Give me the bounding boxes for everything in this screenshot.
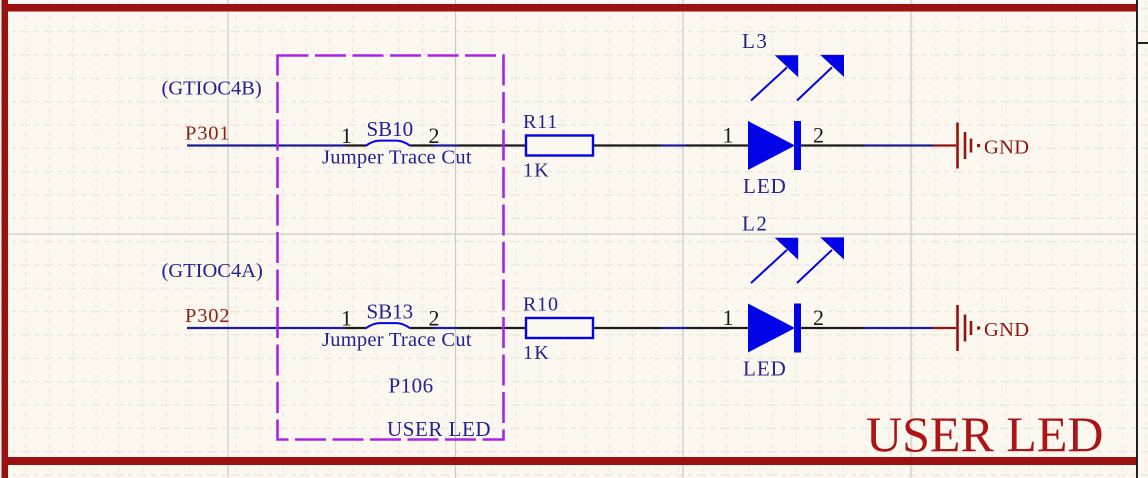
- LED L2 arrow 2: [797, 237, 844, 283]
- svg-text:LED: LED: [743, 174, 787, 198]
- wire LED L3 pin2 (black): [801, 144, 864, 146]
- jumper SB10 pin 1 number: [341, 123, 352, 148]
- svg-text:1: 1: [341, 123, 352, 148]
- component group comment USER LED: [387, 417, 491, 441]
- port P301: [185, 123, 230, 145]
- LED L3 pin 2 number: [813, 123, 824, 148]
- svg-text:1K: 1K: [523, 342, 550, 364]
- adjacent sheet edge tick: [1137, 42, 1148, 44]
- svg-text:P106: P106: [389, 374, 434, 398]
- jumper SB10 arc body: [366, 141, 411, 146]
- svg-text:P302: P302: [185, 305, 230, 327]
- LED L3 triangle anode: [748, 121, 795, 170]
- svg-text:SB10: SB10: [367, 117, 414, 141]
- LED L2 pin 1 number: [723, 305, 734, 330]
- port P302: [185, 305, 230, 327]
- LED L3 arrow 1: [751, 55, 798, 100]
- ground GND row2 label: [984, 319, 1029, 341]
- jumper SB13 pin 2 lead: [411, 327, 434, 329]
- wire SB10 pin2 to R11 (blue): [434, 144, 459, 146]
- adjacent sheet edge vertical black line: [1136, 0, 1138, 478]
- LED L2 arrow 1: [751, 238, 798, 283]
- wire P302 to SB13 pin1 (blue): [187, 327, 345, 329]
- LED L3 type label: [743, 174, 787, 198]
- svg-text:(GTIOC4B): (GTIOC4B): [162, 78, 262, 100]
- jumper SB10 pin 1 lead: [345, 144, 366, 146]
- resistor R10 body: [526, 318, 593, 338]
- svg-text:2: 2: [813, 123, 824, 148]
- sheet major grid line vertical 4: [910, 0, 912, 478]
- svg-text:GND: GND: [984, 319, 1029, 341]
- sheet major grid line horizontal: [8, 233, 1136, 235]
- svg-text:2: 2: [429, 306, 440, 331]
- jumper SB13 pin 2 number: [429, 306, 440, 331]
- svg-text:2: 2: [813, 305, 824, 330]
- svg-text:R10: R10: [523, 294, 559, 316]
- resistor R11 body: [526, 136, 593, 156]
- svg-text:1: 1: [723, 123, 734, 148]
- svg-text:P301: P301: [185, 123, 230, 145]
- wire net segment row2 (blue): [661, 327, 686, 329]
- jumper SB10 comment Jumper Trace Cut: [322, 147, 472, 169]
- sheet major grid line vertical 2: [455, 0, 457, 478]
- svg-text:LED: LED: [743, 357, 787, 381]
- LED L3 arrow 2: [797, 55, 844, 101]
- svg-text:2: 2: [429, 123, 440, 148]
- svg-text:Jumper Trace Cut: Jumper Trace Cut: [322, 329, 472, 351]
- LED L2 triangle anode: [748, 304, 795, 353]
- svg-text:L3: L3: [742, 29, 768, 53]
- resistor R11 value 1K: [523, 160, 550, 182]
- jumper SB13 arc body: [366, 323, 411, 328]
- sheet border bottom red bar: [2, 457, 1137, 465]
- sheet major grid line vertical 1: [227, 0, 229, 478]
- wire SB13 pin2 to R10 (blue): [434, 327, 459, 329]
- LED L2 cathode bar: [794, 304, 801, 353]
- net label (GTIOC4A): [162, 260, 263, 282]
- ground GND row1: [933, 123, 980, 169]
- sheet border top red bar: [2, 4, 1137, 12]
- LED L2 pin 2 number: [813, 305, 824, 330]
- jumper SB10 pin 2 lead: [411, 144, 434, 146]
- jumper SB10 pin 2 number: [429, 123, 440, 148]
- svg-text:1: 1: [723, 305, 734, 330]
- wire net segment to LED L2 pin1 (black): [686, 327, 748, 329]
- wire P301 to SB10 pin1 (blue): [187, 144, 345, 146]
- LED L3 designator: [742, 29, 768, 53]
- jumper SB13 designator: [367, 300, 414, 324]
- svg-text:Jumper Trace Cut: Jumper Trace Cut: [322, 147, 472, 169]
- component group dashed box P106: [278, 56, 504, 440]
- resistor R11 left lead: [458, 144, 526, 146]
- wire net segment to LED L3 pin1 (black): [686, 144, 748, 146]
- ground GND row2: [933, 305, 980, 351]
- jumper SB13 comment Jumper Trace Cut: [322, 329, 472, 351]
- resistor R10 value 1K: [523, 342, 550, 364]
- title text USER LED: [866, 406, 1104, 462]
- wire R10 to net segment (black): [594, 327, 661, 329]
- jumper SB10 designator: [367, 117, 414, 141]
- svg-text:GND: GND: [984, 137, 1029, 159]
- ground GND row1 label: [984, 137, 1029, 159]
- wire to GND row2 (blue): [864, 327, 933, 329]
- wire to GND row1 (blue): [864, 144, 933, 146]
- sheet major grid line vertical 3: [682, 0, 684, 478]
- net label (GTIOC4B): [162, 78, 262, 100]
- jumper SB13 pin 1 lead: [345, 327, 366, 329]
- svg-text:L2: L2: [742, 212, 768, 236]
- LED L2 designator: [742, 212, 768, 236]
- svg-text:USER LED: USER LED: [387, 417, 491, 441]
- svg-text:1: 1: [341, 306, 352, 331]
- svg-text:1K: 1K: [523, 160, 550, 182]
- wire net segment (blue): [661, 144, 686, 146]
- LED L3 cathode bar: [794, 121, 801, 170]
- jumper SB13 pin 1 number: [341, 306, 352, 331]
- sheet border left red bar: [2, 0, 9, 478]
- LED L3 pin 1 number: [723, 123, 734, 148]
- component group designator P106: [389, 374, 434, 398]
- resistor R10 left lead: [458, 327, 526, 329]
- LED L2 type label: [743, 357, 787, 381]
- wire R11 to net segment (black): [594, 144, 661, 146]
- svg-text:SB13: SB13: [367, 300, 414, 324]
- svg-text:(GTIOC4A): (GTIOC4A): [162, 260, 263, 282]
- svg-text:R11: R11: [523, 111, 558, 133]
- svg-text:USER LED: USER LED: [866, 406, 1104, 462]
- wire LED L2 pin2 (black): [801, 327, 864, 329]
- resistor R11 designator: [523, 111, 558, 133]
- resistor R10 designator: [523, 294, 559, 316]
